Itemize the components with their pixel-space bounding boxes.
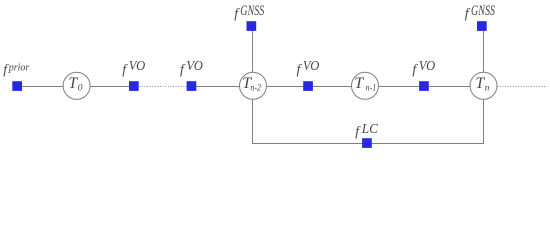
label f_LC	[355, 121, 379, 140]
svg-text:n: n	[485, 83, 490, 93]
svg-text:VO: VO	[129, 58, 146, 74]
label f_GNSS1	[234, 2, 265, 21]
variable node Tn-2	[240, 72, 267, 99]
svg-text:f: f	[234, 6, 240, 21]
wire Tn2-fVO3	[267, 86, 309, 88]
wire Tn1-fVO4	[379, 86, 425, 88]
label f_GNSS2	[465, 2, 496, 21]
svg-text:VO: VO	[419, 58, 436, 74]
svg-text:n-2: n-2	[250, 82, 261, 93]
wire GNSS1 vertical	[252, 31, 254, 73]
svg-text:GNSS: GNSS	[240, 2, 264, 18]
wire fVO4-Tn	[424, 86, 470, 88]
variable node Tn-1	[352, 72, 379, 99]
label f_VO4	[412, 58, 435, 78]
factor f_VO1 square	[129, 81, 139, 91]
svg-text:VO: VO	[303, 58, 320, 74]
factor f_GNSS1 square	[247, 21, 257, 31]
label f_VO3	[297, 58, 320, 78]
wire dotted fVO1-fVO2	[139, 86, 186, 88]
svg-text:f: f	[180, 62, 186, 77]
svg-text:GNSS: GNSS	[471, 2, 495, 18]
wire GNSS2 vertical	[483, 31, 485, 73]
svg-text:VO: VO	[186, 58, 203, 74]
wire fVO3-Tn1	[308, 86, 352, 88]
factor f_prior square	[12, 81, 22, 91]
variable node T0	[63, 72, 90, 99]
wire dotted Tn-right	[497, 86, 545, 88]
label f_VO1	[122, 58, 145, 78]
label f_prior	[3, 62, 29, 77]
svg-text:prior: prior	[8, 62, 30, 73]
svg-text:LC: LC	[361, 121, 379, 136]
svg-text:0: 0	[78, 83, 83, 93]
svg-text:f: f	[297, 62, 303, 77]
wire fVO2-Tn2	[192, 86, 240, 88]
wire T0-fVO1	[90, 86, 134, 88]
svg-text:f: f	[355, 124, 361, 139]
factor f_VO2 square	[187, 81, 197, 91]
factor f_VO4 square	[419, 81, 429, 91]
svg-text:f: f	[412, 62, 418, 77]
factor f_GNSS2 square	[477, 21, 487, 31]
svg-text:n-1: n-1	[366, 82, 377, 93]
variable node Tn	[470, 72, 497, 99]
wire prior-T0	[17, 86, 63, 88]
svg-text:f: f	[465, 6, 471, 21]
factor f_VO3 square	[303, 81, 313, 91]
svg-text:T: T	[354, 75, 364, 92]
svg-text:f: f	[122, 62, 128, 77]
wire LC loop	[253, 99, 484, 143]
factor f_LC square	[362, 138, 372, 148]
label f_VO2	[180, 58, 203, 78]
